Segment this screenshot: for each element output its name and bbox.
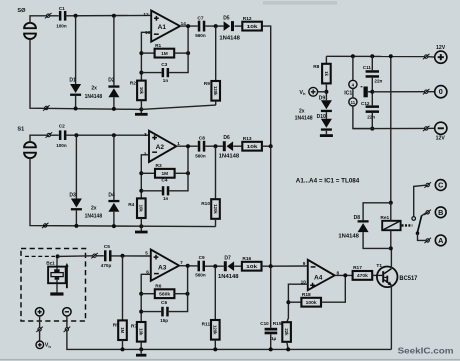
scan streak bottom edge xyxy=(0,359,460,360)
capacitor C5 xyxy=(104,250,112,261)
junction D1 bottom xyxy=(74,107,78,111)
wire R1 to output rail xyxy=(174,52,188,54)
resistor R3 xyxy=(155,163,175,178)
svg-text:D1: D1 xyxy=(69,78,76,84)
wire bottom rail xyxy=(67,331,392,349)
ground Vh bias xyxy=(320,134,333,137)
svg-text:120k: 120k xyxy=(213,325,218,335)
diode D8 xyxy=(358,220,369,232)
capacitor C6 xyxy=(161,307,169,317)
wire relay top lead xyxy=(390,203,392,221)
connector 0V xyxy=(423,89,430,94)
svg-text:15p: 15p xyxy=(160,318,168,323)
resistor R16 xyxy=(242,256,262,271)
microphone S1 xyxy=(24,142,36,158)
svg-text:560n: 560n xyxy=(195,272,206,277)
svg-text:R18: R18 xyxy=(302,292,311,298)
terminal box - xyxy=(63,308,71,316)
wire C8 to D6 xyxy=(205,145,223,147)
ground ch1 xyxy=(135,113,148,116)
svg-text:10k: 10k xyxy=(139,87,144,95)
wire R12 to summing bus xyxy=(262,26,271,146)
junction Vh tap xyxy=(324,90,328,94)
svg-text:3: 3 xyxy=(144,132,147,137)
wire down to D3 xyxy=(75,135,77,198)
svg-text:11: 11 xyxy=(351,100,356,105)
svg-text:10k: 10k xyxy=(247,144,258,150)
wire C contact down xyxy=(414,185,426,216)
wire +12V rail xyxy=(326,55,424,57)
svg-text:R13: R13 xyxy=(243,136,252,142)
wire mic1 bottom to ground node xyxy=(30,39,141,110)
svg-text:D4: D4 xyxy=(108,192,115,198)
wire C11 to C12 xyxy=(371,78,373,106)
svg-text:C10: C10 xyxy=(260,321,269,326)
resistor R2 xyxy=(130,81,146,101)
svg-text:1N4148: 1N4148 xyxy=(219,36,240,42)
wire C6 right up to A3 output xyxy=(169,266,188,312)
svg-text:D3: D3 xyxy=(69,192,76,198)
wire down to D2 xyxy=(113,16,115,86)
wire mic1 to connector xyxy=(30,16,46,23)
svg-text:560n: 560n xyxy=(195,33,206,38)
connector contact A xyxy=(424,238,431,243)
wire rail to R8 xyxy=(325,56,327,64)
diode D9 xyxy=(321,100,332,112)
IC1 pin 11 xyxy=(349,98,357,106)
svg-text:A2: A2 xyxy=(156,144,165,151)
junction A4 output xyxy=(343,273,347,277)
wire connector to C1 xyxy=(50,15,59,17)
svg-text:22k: 22k xyxy=(284,328,289,336)
wire C10 to bottom rail xyxy=(270,334,272,349)
wire R9 to ground wire xyxy=(215,101,217,106)
diode D2 xyxy=(108,85,119,97)
svg-text:22n: 22n xyxy=(374,78,382,83)
wire T1 collector up xyxy=(390,248,392,268)
resistor R8 xyxy=(313,64,331,84)
svg-text:D5: D5 xyxy=(223,15,230,21)
resistor R10 xyxy=(201,199,220,219)
capacitor C4 xyxy=(162,186,170,195)
svg-text:1M: 1M xyxy=(120,327,125,333)
terminal C xyxy=(435,180,446,191)
wire R4 to ground xyxy=(140,218,142,226)
wire D2 to ground rail xyxy=(113,97,115,109)
svg-text:A: A xyxy=(438,236,443,245)
svg-text:R15: R15 xyxy=(273,321,282,327)
svg-text:120k: 120k xyxy=(213,86,218,96)
junction R6 right xyxy=(186,292,190,296)
svg-text:10k: 10k xyxy=(139,205,144,213)
resistor R11 xyxy=(202,320,220,340)
svg-text:2x: 2x xyxy=(91,205,97,211)
wire D3 to ground rail xyxy=(75,210,77,226)
connector -12V xyxy=(423,126,430,131)
wire down to R5 xyxy=(122,256,124,321)
wire C4 right up to A2 output xyxy=(169,146,188,191)
wire R17 to T1 base xyxy=(372,274,379,276)
svg-text:1µ: 1µ xyxy=(271,336,277,341)
svg-text:2x: 2x xyxy=(299,108,305,114)
junction R3 left xyxy=(139,171,143,175)
microphone S0 xyxy=(24,23,36,39)
wire D1 to ground rail xyxy=(75,96,77,109)
wire R5 to bottom rail xyxy=(122,340,124,349)
svg-text:560n: 560n xyxy=(195,154,206,159)
svg-text:1: 1 xyxy=(177,141,180,146)
svg-text:SØ: SØ xyxy=(17,8,26,14)
svg-text:470k: 470k xyxy=(357,273,368,279)
junction relay column top xyxy=(389,54,393,58)
resistor R15 xyxy=(273,321,291,342)
wire A1 output to C7 xyxy=(180,25,198,27)
svg-text:10k: 10k xyxy=(139,328,144,336)
svg-text:Re1: Re1 xyxy=(380,215,389,221)
svg-text:R16: R16 xyxy=(242,256,251,262)
op-amp A1 xyxy=(143,11,186,42)
junction D3 top xyxy=(74,133,78,137)
svg-text:S1: S1 xyxy=(17,127,24,133)
resistor R18 xyxy=(301,292,321,307)
svg-text:C11: C11 xyxy=(363,65,372,70)
svg-text:1N4148: 1N4148 xyxy=(295,116,313,122)
junction C6 left xyxy=(139,310,143,314)
connector ch2 ground xyxy=(42,223,49,228)
diode D7 xyxy=(224,261,234,271)
wire mic2 to connector xyxy=(30,135,47,142)
svg-text:C4: C4 xyxy=(161,178,167,184)
wire A contact to pivot xyxy=(418,233,426,240)
resistor R17 xyxy=(353,265,373,280)
svg-text:1M: 1M xyxy=(161,51,168,57)
wire A3 output to C9 xyxy=(179,265,197,267)
junction C12 bottom xyxy=(370,127,374,131)
terminal box + xyxy=(35,308,43,316)
junction R5 bottom xyxy=(121,347,125,351)
wire stub ground ch2 xyxy=(140,226,142,231)
connector ch2 input xyxy=(46,132,53,137)
wire C2 to A2 pin3 xyxy=(66,134,149,136)
capacitor C2 xyxy=(59,130,67,140)
junction armature pivot xyxy=(416,231,420,235)
svg-text:R4: R4 xyxy=(128,202,134,208)
svg-text:D8: D8 xyxy=(354,215,361,221)
wire pin4 to pin11 xyxy=(352,88,354,98)
resistor R9 xyxy=(204,81,220,101)
junction R6 left xyxy=(139,292,143,296)
svg-text:1N4148: 1N4148 xyxy=(219,154,240,160)
svg-text:10k: 10k xyxy=(247,24,258,30)
svg-text:22n: 22n xyxy=(367,114,375,119)
wire R7 to bottom rail xyxy=(140,342,142,350)
wire A3 pin6 feedback rail xyxy=(141,274,151,322)
junction R11 top xyxy=(213,264,217,268)
wire R6 to output rail xyxy=(174,293,187,295)
svg-text:1n: 1n xyxy=(163,196,169,201)
wire A2 pin2 feedback rail xyxy=(141,155,149,199)
svg-text:100n: 100n xyxy=(56,23,67,28)
svg-text:5: 5 xyxy=(145,251,148,256)
wire box+ down xyxy=(39,316,41,327)
terminal Vh source top xyxy=(309,87,318,96)
svg-text:R6: R6 xyxy=(155,283,161,289)
wire to C4 xyxy=(141,190,162,192)
svg-text:R1: R1 xyxy=(155,43,161,49)
wire to Vh source xyxy=(39,331,41,341)
junction Bz1 top xyxy=(56,254,60,258)
wire rail to C11 xyxy=(371,56,373,70)
svg-text:A1...A4 = IC1 = TL084: A1...A4 = IC1 = TL084 xyxy=(296,178,360,185)
junction D3 bottom xyxy=(74,224,78,228)
resistor R5 xyxy=(113,320,127,340)
svg-text:D7: D7 xyxy=(224,255,231,261)
svg-text:R11: R11 xyxy=(202,321,211,327)
svg-text:R7: R7 xyxy=(131,323,137,329)
diode D10 xyxy=(321,119,332,131)
transistor T1 xyxy=(377,267,398,288)
dashed sensor box xyxy=(21,249,86,322)
svg-text:C12: C12 xyxy=(361,101,370,106)
junction D1 top xyxy=(74,14,78,18)
dashed relay actuator link xyxy=(402,224,413,226)
svg-text:A1: A1 xyxy=(158,24,167,31)
junction 0V mid xyxy=(370,90,374,94)
wire down to D4 xyxy=(113,135,115,200)
junction R1 left xyxy=(139,51,143,55)
wire R15 to bottom rail xyxy=(287,342,288,350)
connector contact B xyxy=(424,210,431,215)
junction relay bottom xyxy=(389,246,393,250)
switch armature xyxy=(418,216,422,233)
wire C1 to A1 pin12 xyxy=(66,14,151,16)
svg-text:C7: C7 xyxy=(197,16,203,22)
wire to C3 xyxy=(141,72,161,74)
connector ch1 ground xyxy=(43,105,50,110)
terminal -12V xyxy=(435,122,447,134)
wire to C6 xyxy=(141,311,161,313)
svg-text:0: 0 xyxy=(439,87,443,96)
wire R13 to summing bus xyxy=(262,145,271,147)
connector ch3 input xyxy=(91,253,98,258)
wire Vh to column xyxy=(318,91,327,93)
wire pin11 to -12V rail xyxy=(353,106,372,129)
wire D4 to ground rail xyxy=(113,212,115,226)
junction ch2 ground node xyxy=(139,224,143,228)
svg-text:100n: 100n xyxy=(56,143,67,148)
svg-text:1n: 1n xyxy=(163,78,169,83)
svg-text:C: C xyxy=(438,181,443,190)
wire A4 output to R17 xyxy=(335,274,353,276)
svg-text:Vh: Vh xyxy=(45,343,52,349)
connector box- xyxy=(64,327,71,332)
svg-text:D6: D6 xyxy=(223,135,230,141)
op-amp A3 xyxy=(145,250,183,281)
wire connector to C5 xyxy=(96,255,103,257)
svg-text:C6: C6 xyxy=(161,300,167,306)
svg-text:100k: 100k xyxy=(306,300,317,306)
wire box- down xyxy=(66,316,68,327)
wire to -12V terminal xyxy=(428,127,435,129)
terminal A xyxy=(435,235,446,246)
svg-text:1N4148: 1N4148 xyxy=(85,94,103,100)
svg-text:120k: 120k xyxy=(213,204,218,214)
scan smudge top edge xyxy=(263,1,337,4)
wire D7 to R16 xyxy=(234,265,242,267)
junction A3 output xyxy=(186,264,190,268)
svg-text:R3: R3 xyxy=(156,163,162,169)
svg-text:C9: C9 xyxy=(199,255,205,261)
wire mic2 bottom ground rail ch2 xyxy=(30,158,216,227)
wire C12 to -12V rail xyxy=(371,113,373,129)
capacitor C1 xyxy=(59,11,67,21)
junction D2 top xyxy=(112,14,116,18)
svg-text:1N4148: 1N4148 xyxy=(218,274,239,280)
junction R7 bottom xyxy=(139,347,143,351)
svg-text:R12: R12 xyxy=(243,16,252,22)
wire summing bus middle xyxy=(270,146,272,266)
wire connector to C2 xyxy=(51,134,59,136)
wire to 0V terminal xyxy=(428,91,435,93)
capacitor C7 xyxy=(198,21,206,32)
wire stub ground ch1 xyxy=(140,109,142,113)
op-amp A4 xyxy=(301,260,340,290)
junction R11 bottom xyxy=(213,347,217,351)
op-amp A2 xyxy=(144,131,181,162)
wire to R3 xyxy=(141,172,155,174)
wire R8 to D9 xyxy=(325,83,327,100)
junction summing bus R13 xyxy=(269,144,273,148)
wire to D8 top xyxy=(363,203,391,220)
relay Re1 xyxy=(382,221,400,230)
junction ch1 ground node xyxy=(139,107,143,111)
svg-text:12V: 12V xyxy=(436,135,446,141)
svg-text:D10: D10 xyxy=(317,114,326,120)
junction IC1 supply xyxy=(351,54,355,58)
junction R9 top xyxy=(214,24,218,28)
wire C3 right up to A1 output xyxy=(169,26,188,73)
wire to R18 xyxy=(288,301,301,303)
resistor R7 xyxy=(131,322,146,342)
terminal +12V xyxy=(435,51,447,63)
wire summing bus to C10 xyxy=(270,266,272,328)
junction D2 bottom xyxy=(112,107,116,111)
svg-text:10k: 10k xyxy=(246,264,257,270)
svg-text:SeekIC.com: SeekIC.com xyxy=(398,347,454,356)
ground ch2 xyxy=(135,231,148,234)
svg-text:T1: T1 xyxy=(376,263,382,269)
svg-text:R5: R5 xyxy=(113,322,119,328)
svg-text:C1: C1 xyxy=(59,6,65,12)
0V plate bar xyxy=(364,87,368,98)
svg-text:Bz1: Bz1 xyxy=(46,261,55,267)
capacitor C12 xyxy=(366,105,379,113)
wire to R6 xyxy=(141,293,155,295)
wire bar to 0 rail xyxy=(368,91,373,93)
capacitor C3 xyxy=(162,68,170,77)
diode D5 xyxy=(224,21,234,31)
svg-text:R17: R17 xyxy=(353,265,362,271)
junction A1 output xyxy=(186,24,190,28)
resistor R12 xyxy=(242,16,262,31)
svg-text:2x: 2x xyxy=(91,85,97,91)
wire A1 pin13 feedback rail xyxy=(141,32,151,80)
wire T1 emitter to bottom rail xyxy=(390,285,392,349)
svg-text:C3: C3 xyxy=(161,62,167,68)
svg-text:470p: 470p xyxy=(101,263,112,268)
wire R10 to ground wire xyxy=(215,219,217,227)
connector contact C xyxy=(424,182,431,187)
svg-text:R9: R9 xyxy=(204,81,210,87)
resistor R6 xyxy=(155,283,175,298)
piezo buzzer Bz1 xyxy=(48,256,69,295)
wire C7 to D5 xyxy=(205,25,223,27)
wire D6 to R13 xyxy=(233,145,242,147)
junction relay top xyxy=(389,201,393,205)
junction summing bus R16 xyxy=(269,264,273,268)
wire A4 pin10 rail xyxy=(287,284,308,322)
junction R3 right xyxy=(186,171,190,175)
wire R16 to A4 pin9 xyxy=(262,265,308,267)
svg-text:R2: R2 xyxy=(130,81,136,87)
svg-text:12V: 12V xyxy=(436,45,446,51)
wire junction down to R10 xyxy=(215,146,217,199)
ground ch3 xyxy=(136,354,146,357)
connector +12V xyxy=(423,54,430,59)
svg-text:Vh: Vh xyxy=(299,90,306,96)
svg-text:C8: C8 xyxy=(199,135,205,141)
wire B contact stub xyxy=(421,213,426,216)
svg-text:1N4148: 1N4148 xyxy=(85,213,103,219)
wire D5 to R12 xyxy=(235,25,243,27)
svg-text:B: B xyxy=(438,208,443,217)
junction C3 left xyxy=(139,71,143,75)
open node switch pivot xyxy=(412,217,416,221)
svg-text:R10: R10 xyxy=(201,201,210,207)
svg-text:D9: D9 xyxy=(319,96,326,102)
junction R1 right xyxy=(186,51,190,55)
svg-text:R8: R8 xyxy=(313,64,319,70)
junction R18 left xyxy=(286,300,290,304)
resistor R4 xyxy=(128,198,145,218)
wire A2 output to C8 xyxy=(176,145,197,147)
terminal B xyxy=(435,207,446,218)
wire stub ground ch3 xyxy=(140,349,142,353)
wire C9 to D7 xyxy=(205,265,224,267)
connector Vh+ xyxy=(36,327,43,332)
wire junction down to R11 xyxy=(214,266,216,320)
wire junction down to R9 xyxy=(215,26,217,81)
junction D4 bottom xyxy=(112,224,116,228)
svg-text:560k: 560k xyxy=(159,292,170,298)
diode D3 xyxy=(71,199,82,211)
wire D10 to ground bar xyxy=(325,131,327,134)
IC1 pin 4 xyxy=(349,80,357,88)
wire +12V to relay column xyxy=(390,56,392,203)
wire C5 to A3 pin5 xyxy=(112,255,151,257)
wire D9 to D10 xyxy=(325,112,327,119)
capacitor C11 xyxy=(366,70,379,78)
svg-text:1M: 1M xyxy=(161,171,168,177)
junction C4 left xyxy=(139,189,143,193)
terminal 0V xyxy=(435,86,447,98)
junction A2 output xyxy=(186,144,190,148)
svg-text:D2: D2 xyxy=(108,78,115,84)
svg-text:C2: C2 xyxy=(59,123,65,129)
wire R11 to bottom rail xyxy=(214,340,216,350)
wire to R1 xyxy=(141,52,154,54)
svg-text:IC1: IC1 xyxy=(344,90,352,96)
